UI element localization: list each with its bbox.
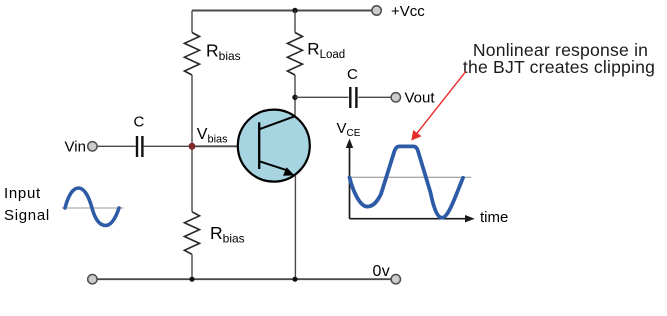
input sine axis line <box>62 207 124 209</box>
svg-text:time: time <box>480 209 508 226</box>
svg-text:Rbias: Rbias <box>206 41 241 64</box>
svg-text:VCE: VCE <box>337 120 361 139</box>
svg-text:Signal: Signal <box>4 207 50 224</box>
svg-text:Vbias: Vbias <box>197 126 228 145</box>
wire output node to capacitor <box>295 96 349 98</box>
node junction top (R_Load tap) <box>292 8 297 13</box>
terminal +Vcc <box>372 6 381 15</box>
wire emitter to 0v rail <box>294 176 296 280</box>
wire top rail <box>192 10 372 12</box>
graph x-axis <box>350 215 475 222</box>
input sine wave <box>65 188 119 226</box>
svg-text:0v: 0v <box>373 263 391 280</box>
svg-text:Vout: Vout <box>405 89 436 106</box>
wire left branch top (rail to R_bias) <box>191 11 193 33</box>
node junction lower R_bias / rail <box>189 277 194 282</box>
graph y-axis <box>346 139 353 219</box>
svg-text:Input: Input <box>4 185 41 202</box>
svg-text:RLoad: RLoad <box>307 40 345 61</box>
capacitor C (input) <box>137 136 142 157</box>
node junction collector/output <box>292 95 297 100</box>
node junction emitter / rail <box>292 277 297 282</box>
capacitor C (output) <box>350 87 356 108</box>
svg-text:C: C <box>134 114 145 131</box>
wire R_bias to V_bias node <box>191 75 193 146</box>
svg-text:Vin: Vin <box>65 138 86 155</box>
wire Vin to capacitor <box>97 145 136 147</box>
resistor R_Load <box>287 33 302 76</box>
node V_bias (red dot) <box>189 143 196 150</box>
graph center line <box>350 176 471 178</box>
svg-text:Rbias: Rbias <box>210 223 245 246</box>
waveform V_CE clipped sine <box>350 146 464 217</box>
wire lower R_bias to 0v rail <box>191 254 193 279</box>
transistor Q1 (NPN BJT) <box>238 110 310 182</box>
svg-text:the BJT creates clipping: the BJT creates clipping <box>463 57 655 77</box>
terminal Vout <box>391 93 400 102</box>
annotation red arrow <box>411 71 466 140</box>
wire base (V_bias to transistor) <box>192 145 257 147</box>
resistor R_bias (lower) <box>184 212 199 255</box>
wire V_bias to lower R_bias <box>191 146 193 212</box>
resistor R_bias (upper) <box>184 33 199 76</box>
wire capacitor to V_bias node <box>144 145 192 147</box>
svg-text:+Vcc: +Vcc <box>391 3 425 20</box>
wire R_Load branch top (rail to R_Load) <box>294 11 296 33</box>
wire R_Load to collector <box>294 75 296 116</box>
terminal 0v right <box>391 275 400 284</box>
terminal Vin <box>88 142 97 151</box>
wire capacitor to Vout <box>358 96 391 98</box>
svg-text:C: C <box>347 66 358 83</box>
wire bottom rail 0v <box>97 278 391 280</box>
terminal 0v left <box>88 275 97 284</box>
